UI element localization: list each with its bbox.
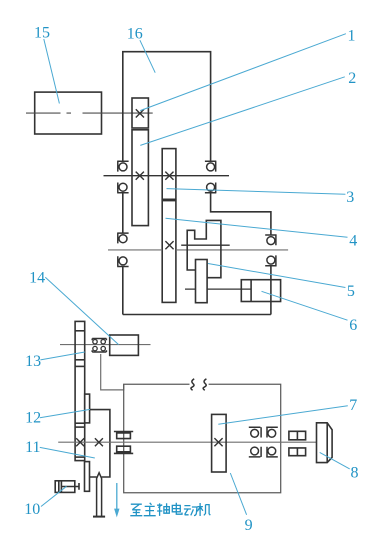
fixed-joint X on gear z1 xyxy=(136,109,144,117)
leader 13 xyxy=(40,352,84,360)
bearing shaft II left upper xyxy=(117,161,128,171)
svg-text:11: 11 xyxy=(25,439,40,456)
leader 7 xyxy=(218,406,347,425)
leader 3 xyxy=(167,189,346,195)
shaft II xyxy=(104,175,230,177)
svg-text:9: 9 xyxy=(245,517,253,534)
fixed-joint X on sleeve xyxy=(136,172,144,180)
leader 6 xyxy=(262,291,348,320)
bearing shaft III left upper xyxy=(117,233,128,243)
shaft III centerline (gray) xyxy=(108,249,288,251)
handle 10 body xyxy=(55,481,75,493)
bearing shaft III left lower xyxy=(117,256,128,266)
leader 12 xyxy=(40,409,90,417)
leader 14 xyxy=(45,277,118,344)
stack divider e xyxy=(75,426,85,428)
leader 5 xyxy=(208,264,345,288)
stack divider c xyxy=(75,365,85,367)
svg-text:7: 7 xyxy=(349,397,357,414)
handle 10 inner lines xyxy=(59,481,75,493)
arrow to spindle motor xyxy=(116,483,118,511)
gear 7 rect xyxy=(212,414,227,472)
leader 10 xyxy=(41,486,67,506)
leader 16 xyxy=(140,40,155,72)
bearing shaft II left lower xyxy=(117,183,128,193)
cluster gear shaft line xyxy=(181,244,230,246)
handwheel 8 xyxy=(317,423,333,463)
bearing shaft II right upper xyxy=(205,161,216,171)
svg-text:15: 15 xyxy=(34,25,50,42)
wire from shaft II right bearing to shaft III right bearing xyxy=(211,193,271,235)
svg-text:6: 6 xyxy=(349,317,357,334)
gear C on lower shaft xyxy=(196,260,208,303)
svg-text:3: 3 xyxy=(346,189,354,206)
fixed-joint X on gear z4 xyxy=(165,241,173,249)
bearing box bottom-right xyxy=(266,447,278,457)
bearings xyxy=(117,161,276,266)
svg-text:5: 5 xyxy=(347,283,355,300)
spindle sleeve rect xyxy=(85,462,90,492)
fixed-joint X on spindle xyxy=(95,438,103,446)
clutch 14 box xyxy=(110,335,139,355)
double bearing rollers xyxy=(93,340,106,351)
svg-text:13: 13 xyxy=(25,353,41,370)
fixed-joint X on stack xyxy=(76,438,84,446)
leader 4 xyxy=(166,218,348,237)
spindle end bar xyxy=(93,516,105,518)
right wall line through clutch down to housing bottom xyxy=(270,266,272,315)
stack divider b xyxy=(75,359,85,361)
break squiggle left xyxy=(191,379,194,391)
clutch 6 divider xyxy=(250,280,252,302)
bearing shaft III right upper xyxy=(265,235,276,245)
belt pulley lower half xyxy=(114,446,133,453)
gear z4 rect lower (long gear) xyxy=(162,201,176,303)
leader 2 xyxy=(140,77,344,146)
break squiggle right xyxy=(203,379,206,391)
char dian xyxy=(172,503,182,514)
bearing box bottom-left xyxy=(249,447,261,457)
fixed-joint X on gear 7 xyxy=(214,438,222,446)
left wall line to housing bottom xyxy=(122,267,124,315)
gear z3 rect upper xyxy=(162,149,176,200)
bearing shaft II right lower xyxy=(205,183,216,193)
bottom drive shaft xyxy=(58,441,316,443)
gear 12 rect xyxy=(85,394,90,423)
double bearing pair brackets xyxy=(92,339,106,353)
wire from gear 12 down to spindle sleeve xyxy=(90,410,110,477)
svg-text:10: 10 xyxy=(24,501,40,518)
housing bottom line xyxy=(123,314,271,316)
svg-text:8: 8 xyxy=(351,465,359,482)
char ji xyxy=(197,503,210,516)
leader 15 xyxy=(44,39,60,104)
upper shaft of feed box (gray) xyxy=(60,344,151,346)
coupling 8 upper squares xyxy=(289,431,306,440)
stack divider d xyxy=(75,422,85,424)
feed gearbox housing with break marks xyxy=(124,384,281,493)
gear z1 on shaft I xyxy=(132,98,148,128)
svg-text:2: 2 xyxy=(348,70,356,87)
svg-text:1: 1 xyxy=(348,27,356,44)
stack divider f xyxy=(75,456,85,458)
svg-text:4: 4 xyxy=(349,233,357,250)
wire from bearing pair down to gear box xyxy=(101,354,124,390)
svg-text:14: 14 xyxy=(29,269,45,286)
char zhi xyxy=(130,504,142,516)
char zhu xyxy=(144,503,156,516)
housing top outline xyxy=(123,52,211,162)
svg-text:16: 16 xyxy=(127,26,143,43)
belt pulley upper half xyxy=(114,432,133,439)
clutch 6 box xyxy=(241,280,280,302)
text 至主轴电动机 xyxy=(130,503,210,516)
bearing box top-right xyxy=(266,427,278,437)
sleeve gear z2 xyxy=(132,130,148,226)
lower shaft IV stubs xyxy=(185,288,251,290)
stack divider a xyxy=(75,330,85,332)
leader 11 xyxy=(40,447,95,458)
left wall line below shaft II xyxy=(122,193,124,234)
leader 9 xyxy=(230,473,246,515)
motor M15 box xyxy=(35,92,102,134)
handle 10 stub and cap xyxy=(75,483,79,490)
bearing shaft III right lower xyxy=(265,255,276,265)
leader 8 xyxy=(320,452,350,469)
coupling 8 lower squares xyxy=(289,448,306,456)
char dong xyxy=(184,506,197,516)
shaft I centerline (dash-dot) xyxy=(26,112,153,114)
bearing box top-left xyxy=(249,427,261,437)
gear stack column 13 xyxy=(75,321,85,460)
fixed-joint X on gear z3 xyxy=(165,172,173,180)
sliding cluster gear 5 outline xyxy=(187,220,221,277)
leader 1 xyxy=(140,34,346,111)
spindle quill arrow xyxy=(97,473,102,517)
char zhou xyxy=(157,503,169,516)
svg-text:12: 12 xyxy=(25,409,41,426)
